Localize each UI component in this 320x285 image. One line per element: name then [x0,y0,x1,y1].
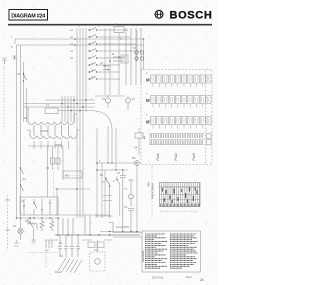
contact S18 on left bus [20,167,26,181]
capacitor C6 [76,235,80,257]
timer contact S6 [88,63,120,66]
wire v58 upper [57,146,59,170]
heater element R1 winding [28,122,74,125]
filter unit Z1 dashed box [90,240,106,271]
svg-text:S2: S2 [17,72,21,76]
wire mid vertical v110 [109,28,111,95]
wire drop v58 [57,218,59,235]
svg-text:K1: K1 [133,46,137,50]
node bottom rail dots [109,231,138,233]
wire heater branch drop [26,88,28,122]
terminal strip X6 row B [149,140,211,145]
wire heater tap 3 [47,125,49,136]
suppressor R4 [50,218,54,231]
wire panel row1 drops [153,83,203,87]
svg-text:P1: P1 [102,97,106,101]
svg-text:M: M [146,98,150,103]
wire heater lower taps [34,141,69,149]
wire bottom rail y235 [55,234,140,236]
legend box L1 [142,231,201,272]
wire drop v90 [89,215,91,235]
wire drop v102 [101,163,103,218]
svg-text:Y1: Y1 [124,187,128,191]
aux contact S12 [23,199,24,215]
cam segment bars T1 [162,188,197,204]
capacitor C4 [64,235,68,257]
micro switch cluster [103,65,110,70]
svg-text:350W: 350W [55,143,62,147]
svg-text:N: N [11,45,13,49]
capacitor C3 [58,235,62,257]
wire dotted v53 [53,172,55,197]
wire motor loop arc [95,111,112,128]
heater element R2 winding [30,136,77,139]
svg-text:C3: C3 [59,241,63,245]
wire panel stub row1 [148,79,151,121]
svg-text:Y2: Y2 [132,97,136,101]
svg-text:24-2: 24-2 [186,275,192,279]
wire v63b [62,146,64,180]
wire bottom rail y231 [100,231,140,233]
program module A1 box [20,197,58,215]
svg-text:H1: H1 [13,224,17,228]
terminal E1 [3,58,7,64]
timer contact S1 [88,28,128,31]
wire panel feed vertical [143,39,145,70]
contact S19 on left bus [20,184,24,191]
contact S17 [116,176,120,216]
svg-text:0,1uF: 0,1uF [55,270,62,274]
node bottom left dots [16,217,59,219]
thermal cutout F3 [46,158,60,170]
node J1 [74,38,76,40]
node J4 [96,162,98,164]
wire heater tap 5 [61,125,63,136]
wire cross rail y107 [24,106,95,108]
wire legend feed [109,223,142,238]
wire timer bus d [85,28,87,112]
wire v52 [52,146,54,170]
wire left vertical bus 1 [16,45,18,218]
dispenser solenoid Y2 [126,96,136,110]
wire y240 c [104,239,112,241]
wire timer bus b [79,28,81,218]
wire drop v85 [84,215,86,235]
wire pump bus v97 [96,128,98,218]
wire N second rail [17,44,144,46]
wire heater tap 4 [54,125,56,136]
svg-text:M: M [146,78,150,83]
wire heater feed left [27,107,29,122]
svg-text:2,2: 2,2 [45,248,49,252]
wire rail y163 [97,162,137,164]
wire mid h200 [103,200,112,202]
wire rail y215 [55,214,110,216]
aux contact S14 [41,199,42,215]
wire heater tap 6 [68,125,70,136]
wire drop v63 [62,218,64,235]
svg-text:M3: M3 [65,174,69,178]
dashed boundary lower [151,166,153,218]
program cam table T1 [160,183,201,207]
wire v139 [138,145,140,155]
float switch S20 [134,128,143,150]
timer contact S8 [88,77,120,80]
wire drop v112 [111,128,113,163]
wire drop v105b [104,170,106,216]
wire panel row3 drops [153,125,203,129]
connector X1 slanted wires [58,258,82,273]
timer contact S3 [88,42,136,45]
svg-text:Pos2: Pos2 [174,153,178,160]
svg-text:24: 24 [200,278,204,282]
wire drop v116 [115,128,117,170]
terminal strip X2 [46,240,52,268]
terminal E2 [5,200,10,230]
relay K2 box [88,242,104,248]
svg-text:ZD 24-01: ZD 24-01 [152,276,164,280]
wire timer bus c [82,28,84,218]
wire y240 b [82,239,92,241]
wire collector v136 [135,28,137,85]
svg-text:M2: M2 [132,156,136,160]
wire left vertical bus 2 [20,45,22,218]
wire h96 [95,95,125,97]
wire v47 [47,146,49,197]
wire grid bus f [64,96,66,122]
label table footer ticks [161,211,197,213]
terminal lugs X7 [14,240,19,246]
node J2 [74,44,76,46]
svg-text:PROGRAM: PROGRAM [151,183,155,199]
timer unit boundary dashed box [141,70,212,165]
indicator lamp H1 [18,218,23,240]
Bosch wordmark [170,9,213,21]
wire dotted y252 [28,252,58,254]
wire collector v131 [130,28,132,85]
terminal strip X6 row A [143,134,211,141]
circulation pump P1 [102,95,111,108]
wire h189 [55,188,90,189]
title box DIAGRAM #24 [9,10,48,21]
svg-text:R1: R1 [24,116,28,120]
svg-text:24h: 24h [147,182,151,187]
wire v57 [56,189,58,215]
switch S10 [13,56,17,59]
svg-text:0,1uF 250V: 0,1uF 250V [116,225,130,229]
wire drop v73 [72,218,74,235]
drain valve Y1 [128,180,134,207]
pump motor M2 [135,161,140,166]
header rule [8,24,212,26]
svg-text:BOSCH: BOSCH [170,9,213,21]
capacitor C5 [70,235,74,257]
wire timer bus a [76,28,78,218]
earth symbol E3 [31,234,36,243]
wire grid bus g [67,96,69,122]
wire grid bus h [70,96,72,122]
timer motor M3 box [63,171,82,178]
wire mid vertical v105 [104,28,106,95]
svg-text:S4: S4 [134,146,138,150]
wire heater tap 2 [40,125,42,136]
wire y240 a [45,239,58,241]
timer contact S7 [88,70,120,73]
timer contact S5 [88,56,126,59]
svg-text:X1: X1 [60,254,64,258]
wire drain drop v137 [136,166,138,232]
wire door switch drop [23,62,25,122]
pressure switch S11 [102,177,110,218]
wire bottom rail y218 [17,217,61,219]
wire collector v141 [140,28,142,85]
wire heater end right [74,114,77,122]
wire mid h195 [103,195,112,197]
wire heater2 end right [77,130,80,136]
thermo fuse F2 [120,170,126,232]
capacitor C2 [128,209,134,232]
wire cross rail y103 [24,103,95,105]
node mid dots2 [107,162,123,170]
node J5 [96,169,98,171]
connector row X5 [146,117,211,125]
svg-text:S3: S3 [23,177,27,181]
varistor R3 [40,218,44,231]
label legend rows [145,234,198,268]
svg-text:DIAGRAM #24: DIAGRAM #24 [11,14,45,20]
door switch S9 [23,72,27,82]
svg-text:2100W: 2100W [40,129,49,133]
svg-text:Pos1: Pos1 [156,153,160,160]
wire dashed left edge upper [3,62,5,128]
main switch S16 [29,218,33,234]
node rail235 dots [57,234,110,236]
svg-text:C1: C1 [114,23,118,27]
wire mid vertical v119 [118,33,120,95]
wire drop v108 [107,126,109,163]
Bosch logo emblem [155,10,163,18]
wire stub y216 [95,215,113,217]
wire heater tap 1 [33,125,35,136]
wire dotted h175 [65,175,80,177]
node rail218 dots [20,217,51,219]
aux contact S15 [49,199,52,215]
wire mid vertical v137 [136,30,138,62]
svg-text:C2: C2 [124,205,128,209]
wire L1 top rail [15,39,144,44]
node J3 [143,38,145,40]
svg-text:Pos3: Pos3 [192,153,196,160]
aux contact S13 [33,199,37,215]
wire grid bus i [73,96,75,122]
svg-text:LEGEND: LEGEND [141,250,145,262]
wire cross rail y100 [45,99,95,101]
svg-text:A1: A1 [21,199,25,203]
wire grid bus e [61,96,63,122]
node grid dots [61,99,87,111]
relay coil K1 [135,51,144,60]
motor junction M cluster [109,55,128,63]
svg-text:M: M [112,52,114,56]
wire heater2 feed left [27,130,31,136]
interference coil L2 [28,218,37,230]
timer contact S2 [88,35,131,38]
wire rail y170 [97,169,128,171]
wire cross rail y110 [58,110,95,112]
wire panel row2 drops [153,104,203,108]
timer contact S4 [88,49,141,52]
wire collector v126 [125,28,127,85]
interference capacitor C1 [114,27,124,34]
thermostat F1 box [45,108,58,114]
wire drop v68 [67,218,69,235]
connector row X3 [146,75,211,83]
wire h146 [28,145,63,147]
connector row X4 [146,96,211,104]
wire dashed left edge [7,195,9,250]
timer unit inner dashed divider [205,70,207,165]
